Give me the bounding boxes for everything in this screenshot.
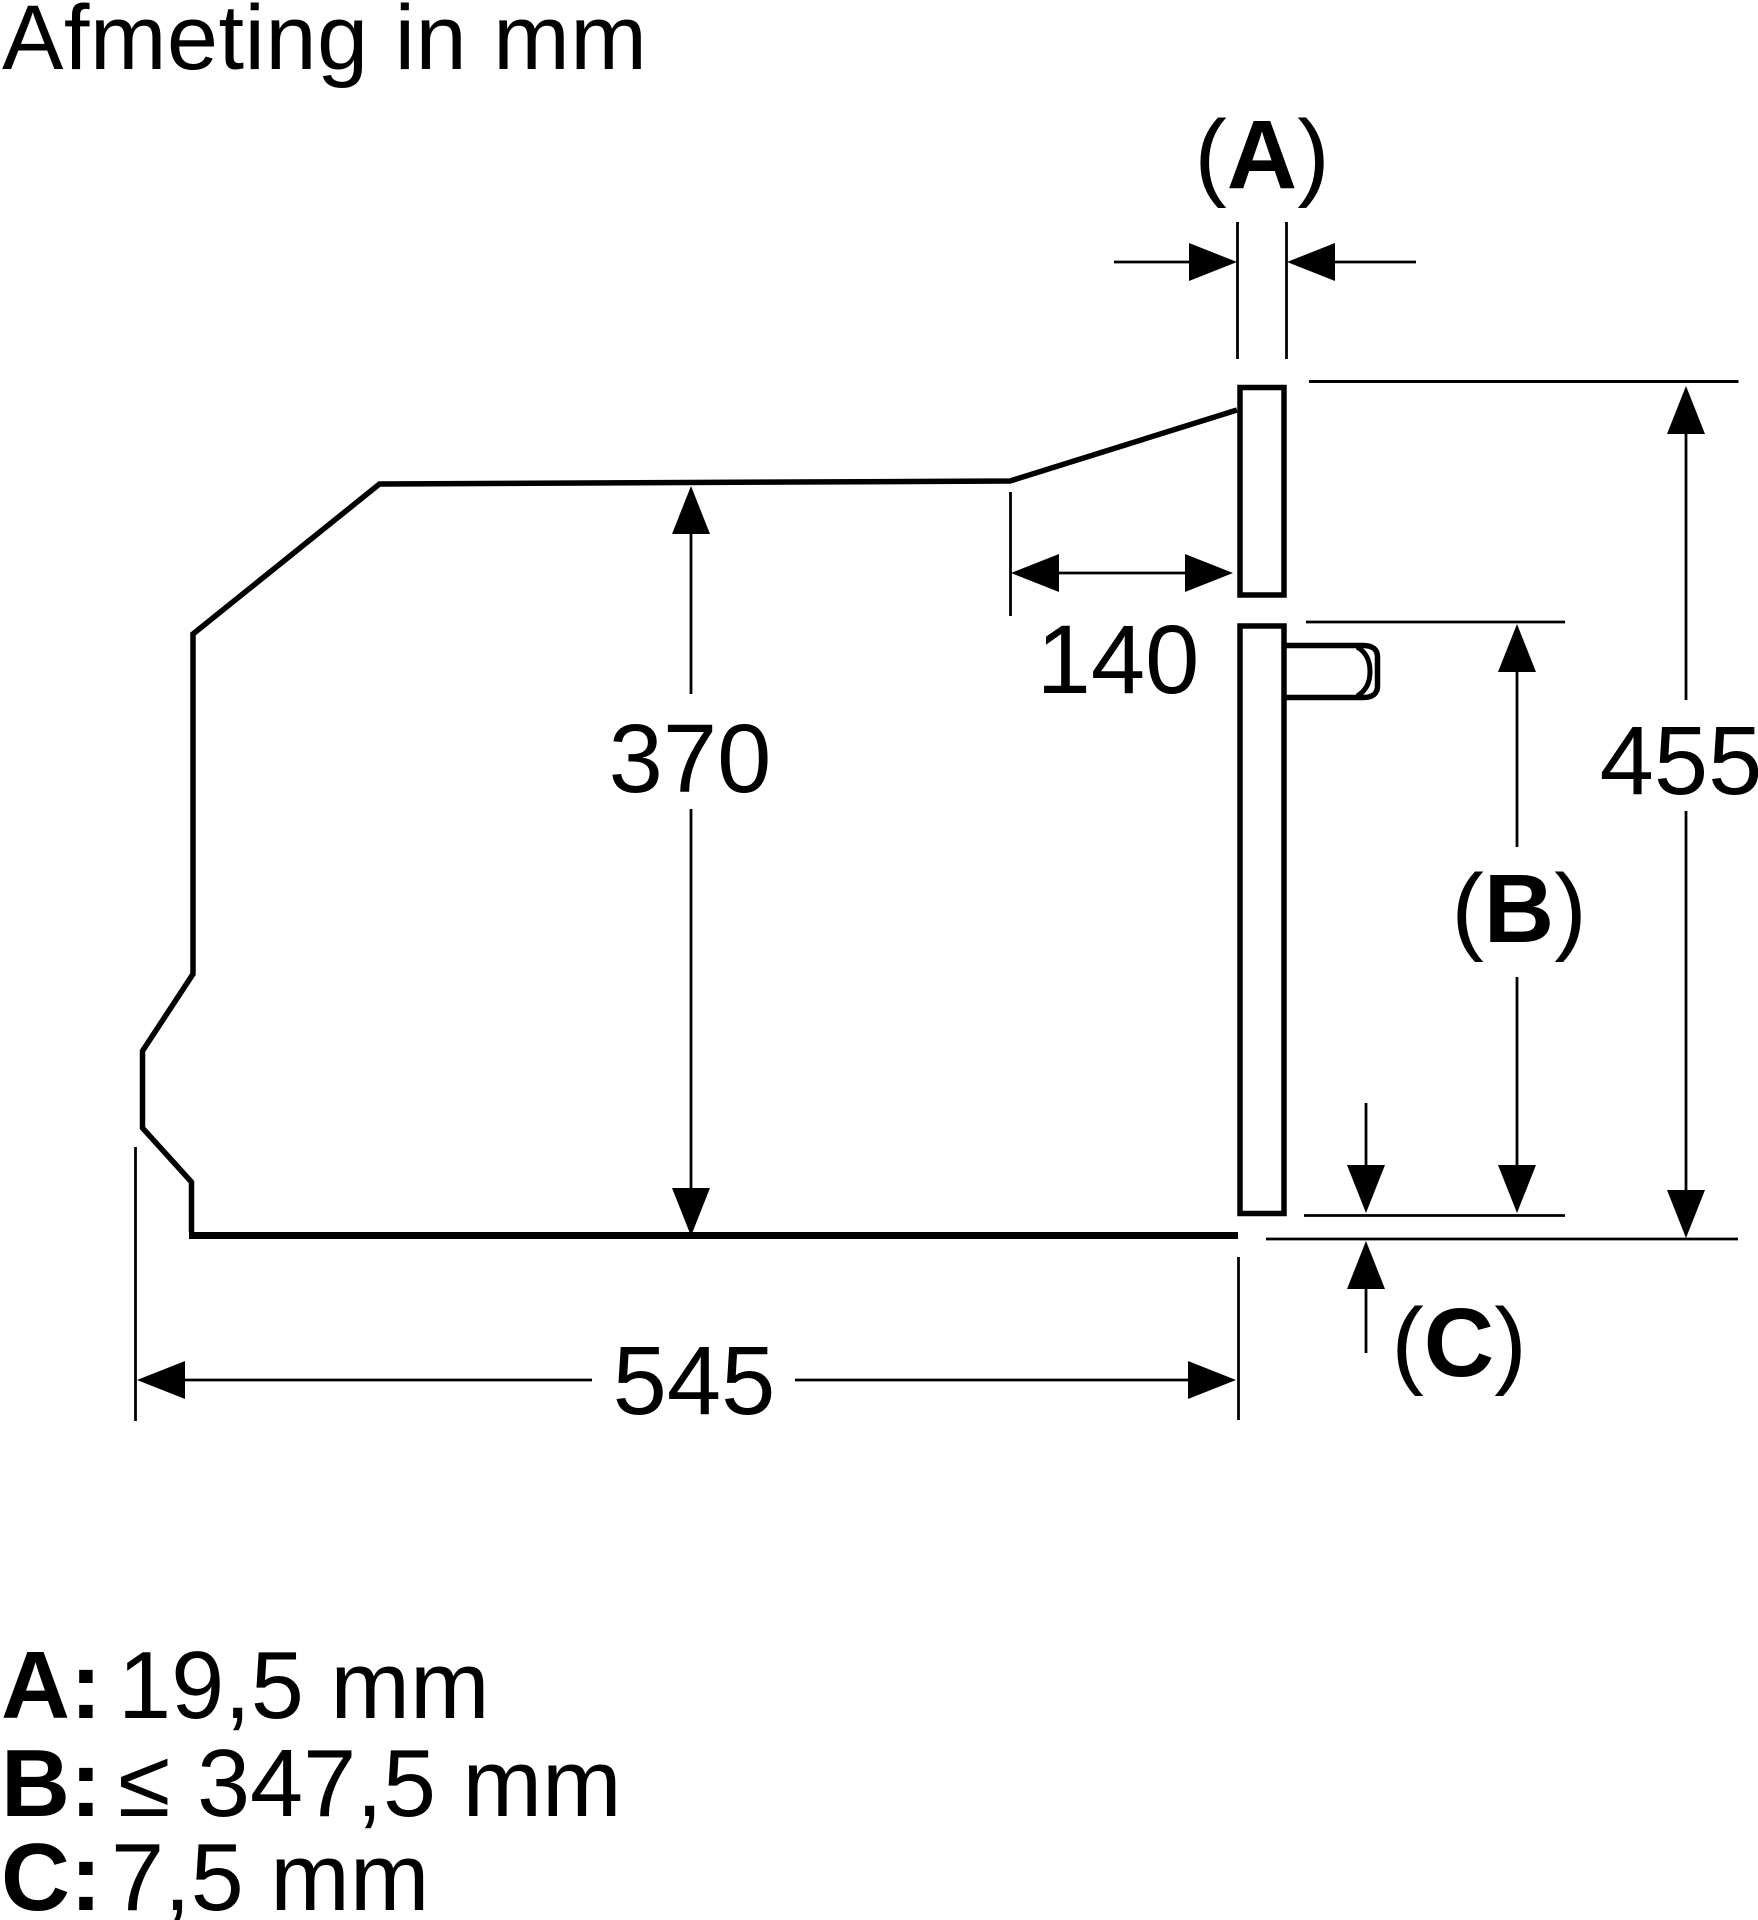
dim 140 right arrowhead [1185,554,1233,592]
dim A left leader line [1114,261,1192,264]
dim B line lower [1516,977,1519,1168]
front panel lower segment [1240,626,1284,1214]
svg-text:370: 370 [609,704,772,813]
dim 545 left extension line [134,1147,137,1421]
dim 455 top arrowhead [1667,386,1705,434]
control knob [1286,646,1378,698]
dim C upper leader line [1365,1103,1368,1168]
control knob inner arc [1357,647,1370,696]
dim 455 line upper [1685,431,1688,700]
front panel upper segment [1240,388,1284,596]
dim 545 right extension line [1237,1257,1240,1420]
dim B top arrowhead [1498,624,1536,672]
dim B line upper [1516,669,1519,847]
dim 455 bottom extension line [1266,1238,1738,1241]
dim C lower arrowhead (up) [1347,1241,1385,1289]
dim 545 right arrowhead [1188,1361,1236,1399]
dim B bottom extension line [1304,1214,1565,1217]
svg-text:(C): (C) [1391,1288,1526,1397]
dim 370 line upper [690,531,693,694]
dim A right arrowhead [1287,243,1335,281]
svg-text:Afmeting in mm: Afmeting in mm [2,0,647,89]
svg-text:(A): (A) [1194,100,1329,209]
dim 140 line [1056,572,1188,575]
dim 370 bottom arrowhead [672,1188,710,1236]
dim 545 left arrowhead [137,1361,185,1399]
svg-text:B:: B: [1,1731,102,1837]
dim 545 line left [182,1379,592,1382]
oven body outline (side view) [143,410,1238,1232]
dim 455 line lower [1685,811,1688,1193]
svg-text:≤ 347,5 mm: ≤ 347,5 mm [118,1731,622,1837]
dim C lower leader line [1365,1286,1368,1353]
svg-text:140: 140 [1037,605,1200,714]
svg-text:7,5 mm: 7,5 mm [111,1825,429,1920]
dim B bottom arrowhead [1498,1165,1536,1213]
svg-text:C:: C: [1,1825,102,1920]
dim 455 bottom arrowhead [1667,1190,1705,1238]
svg-text:19,5 mm: 19,5 mm [118,1633,490,1739]
dim A right leader line [1332,261,1416,264]
dim A left arrowhead [1189,243,1237,281]
dim C upper arrowhead (down) [1347,1165,1385,1213]
dim A right extension line [1285,222,1288,359]
dim 370 line lower [690,809,693,1192]
dim 545 line right [795,1379,1190,1382]
dim 370 top arrowhead [672,486,710,534]
svg-text:A:: A: [1,1633,102,1739]
dim 140 extension line [1009,492,1012,616]
svg-text:(B): (B) [1451,854,1586,963]
oven body bottom line [189,1232,1238,1239]
dim 140 left arrowhead [1011,554,1059,592]
dim B top extension line [1306,621,1565,624]
svg-text:545: 545 [613,1326,776,1435]
dim A left extension line [1236,222,1239,359]
svg-text:455: 455 [1600,706,1758,815]
dim 455 top extension line [1309,380,1739,383]
